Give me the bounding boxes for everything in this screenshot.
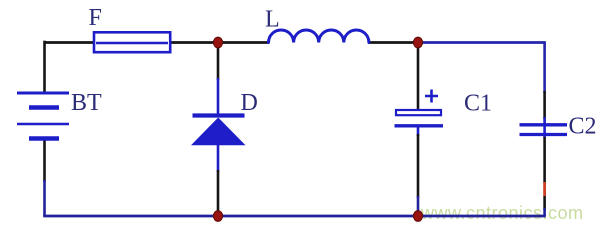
svg-text:C2: C2 [569, 114, 597, 140]
svg-text:F: F [89, 5, 102, 31]
svg-text:C1: C1 [464, 91, 492, 117]
svg-text:BT: BT [71, 90, 102, 116]
svg-text:D: D [241, 90, 258, 116]
svg-text:www.cntronics.com: www.cntronics.com [420, 203, 584, 223]
svg-text:L: L [265, 7, 280, 33]
